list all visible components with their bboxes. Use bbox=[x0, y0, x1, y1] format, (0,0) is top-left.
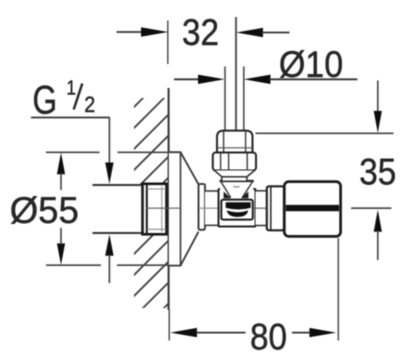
svg-text:32: 32 bbox=[182, 12, 219, 53]
svg-text:G: G bbox=[33, 77, 58, 122]
svg-text:Ø10: Ø10 bbox=[279, 44, 343, 86]
svg-text:Ø55: Ø55 bbox=[10, 190, 79, 231]
svg-text:2: 2 bbox=[84, 93, 95, 117]
svg-text:1: 1 bbox=[66, 77, 76, 100]
svg-text:80: 80 bbox=[250, 317, 287, 358]
svg-text:35: 35 bbox=[359, 152, 396, 193]
